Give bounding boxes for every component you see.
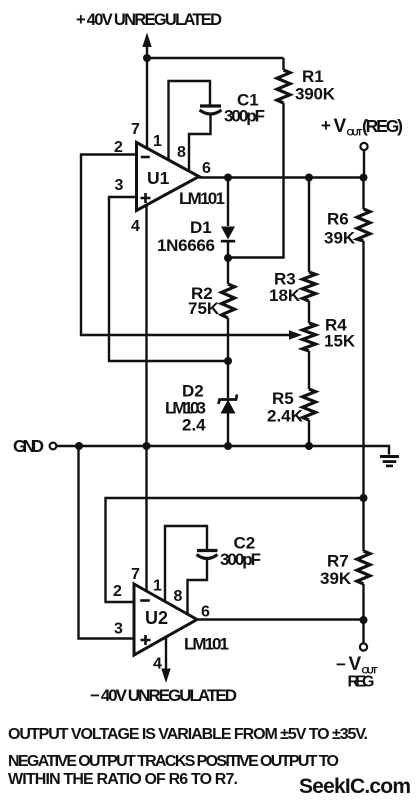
svg-text:V: V [349, 654, 362, 675]
svg-text:R7: R7 [327, 552, 349, 571]
svg-text:2: 2 [114, 139, 123, 156]
svg-text:R1: R1 [302, 67, 324, 86]
svg-text:NEGATIVE OUTPUT TRACKS POSITIV: NEGATIVE OUTPUT TRACKS POSITIVE OUTPUT T… [8, 753, 339, 770]
svg-text:SeekIC.com: SeekIC.com [299, 775, 411, 798]
svg-text:1: 1 [153, 133, 162, 150]
svg-text:300pF: 300pF [220, 550, 261, 569]
svg-text:75K: 75K [188, 299, 220, 318]
svg-text:LM101: LM101 [184, 635, 229, 654]
svg-text:1: 1 [153, 578, 162, 595]
svg-text:3: 3 [114, 621, 123, 638]
svg-text:300pF: 300pF [224, 107, 265, 126]
svg-text:39K: 39K [320, 569, 352, 588]
svg-text:(REG): (REG) [362, 116, 403, 136]
svg-text:U2: U2 [145, 608, 168, 628]
svg-text:V: V [334, 116, 347, 137]
svg-text:− 40V UNREGULATED: − 40V UNREGULATED [90, 686, 237, 705]
svg-text:GND: GND [13, 436, 44, 456]
svg-text:+ 40V UNREGULATED: + 40V UNREGULATED [76, 11, 222, 29]
svg-text:8: 8 [174, 588, 183, 605]
svg-text:6: 6 [201, 604, 210, 621]
svg-text:WITHIN THE RATIO OF R6 TO R7.: WITHIN THE RATIO OF R6 TO R7. [8, 771, 238, 788]
svg-text:D1: D1 [190, 218, 212, 237]
svg-text:2.4K: 2.4K [267, 407, 304, 426]
svg-text:+: + [321, 116, 331, 135]
svg-text:1N6666: 1N6666 [157, 236, 215, 255]
svg-text:−: − [336, 655, 346, 674]
svg-text:4: 4 [131, 218, 140, 235]
svg-text:390K: 390K [295, 85, 336, 104]
svg-text:OUTPUT VOLTAGE IS VARIABLE FRO: OUTPUT VOLTAGE IS VARIABLE FROM ±5V TO ±… [8, 726, 368, 743]
svg-text:2.4: 2.4 [182, 416, 206, 435]
svg-text:15K: 15K [324, 332, 356, 351]
svg-text:39K: 39K [324, 229, 356, 248]
svg-text:4: 4 [153, 656, 162, 673]
svg-text:R6: R6 [327, 210, 349, 229]
svg-text:U1: U1 [147, 168, 170, 188]
svg-text:R5: R5 [272, 389, 294, 408]
svg-text:OUT: OUT [347, 128, 363, 139]
svg-text:8: 8 [177, 144, 186, 161]
svg-text:3: 3 [115, 177, 124, 194]
svg-text:7: 7 [131, 121, 140, 138]
svg-text:2: 2 [113, 583, 122, 600]
svg-text:7: 7 [131, 566, 140, 583]
svg-text:18K: 18K [269, 286, 301, 305]
svg-text:LM101: LM101 [179, 189, 225, 208]
svg-text:6: 6 [202, 160, 211, 177]
svg-text:REG: REG [348, 674, 375, 691]
